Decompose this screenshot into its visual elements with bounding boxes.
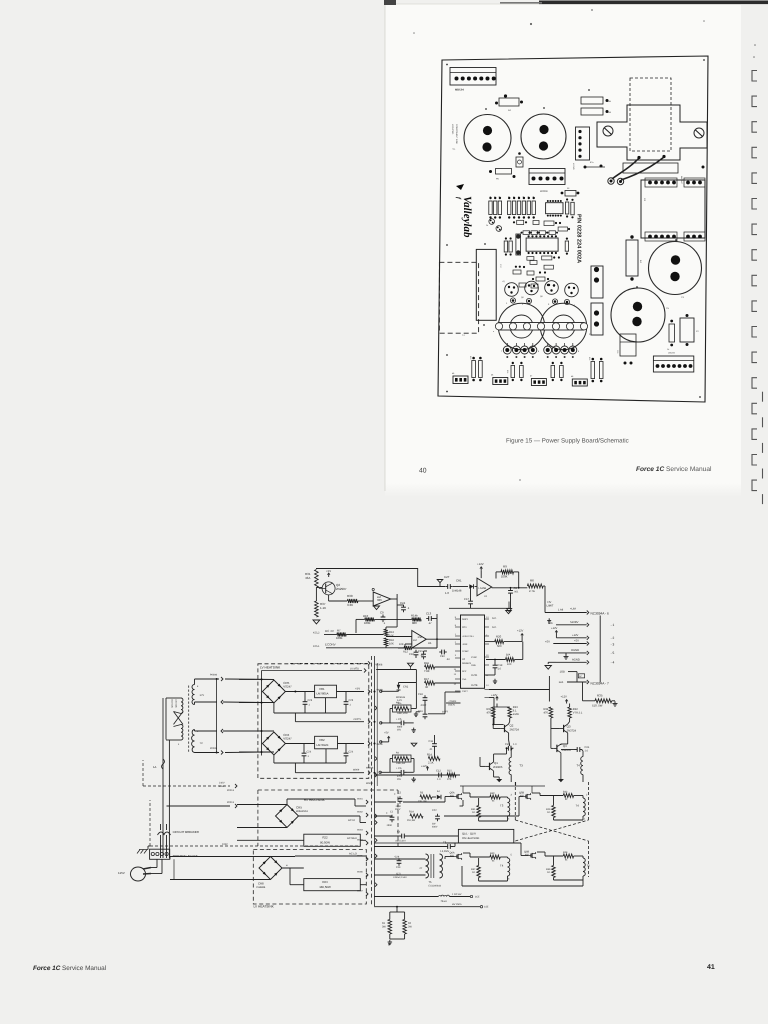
svg-text:W008: W008 — [377, 689, 384, 692]
capacitor C22 2W 400V — [437, 814, 439, 817]
MOSFET Q5A — [456, 795, 458, 799]
wire sec2 top — [194, 730, 196, 732]
ground AGND triangle — [545, 666, 551, 670]
chevron W006 top — [368, 661, 370, 665]
svg-text:Figure 15 — Power Supply Board: Figure 15 — Power Supply Board/Schematic — [506, 438, 629, 445]
transistor Q2 can — [525, 281, 539, 295]
svg-text:CR5: CR5 — [296, 806, 302, 810]
svg-text:R12: R12 — [403, 651, 408, 654]
svg-text:25V: 25V — [397, 778, 402, 781]
svg-text:80,50W: 80,50W — [320, 841, 330, 845]
svg-text:1A: 1A — [153, 765, 157, 769]
diode D1 small circle — [489, 219, 495, 225]
wire mid horizontal — [449, 607, 511, 609]
small parts row 2 — [523, 231, 530, 235]
transformer T5 body — [597, 105, 707, 160]
svg-text:1/2W: 1/2W — [513, 713, 520, 716]
ground right of C5 — [413, 728, 415, 730]
svg-text:HV 250A: HV 250A — [452, 903, 462, 906]
supply +12V at U1B — [480, 567, 482, 571]
svg-text:3W: 3W — [382, 926, 386, 929]
transformer T4 output coil — [583, 798, 585, 816]
supply +12V small — [427, 767, 429, 771]
wire bottom bus cells — [461, 866, 463, 886]
wire R24 right — [360, 884, 366, 886]
resistor right of U3 — [565, 241, 568, 251]
wire R22 right — [360, 839, 366, 841]
svg-text:ROT: ROT — [462, 670, 467, 673]
binder marks column — [752, 44, 763, 504]
resistor R37 1.1K — [315, 601, 319, 617]
svg-text:+5 RTL: +5 RTL — [353, 718, 362, 721]
svg-text:100K: 100K — [336, 636, 343, 640]
svg-text:+12V: +12V — [551, 627, 558, 630]
wire C12 R15 row — [375, 774, 461, 776]
svg-text:R17: R17 — [424, 678, 429, 681]
wires into CR4 — [239, 730, 274, 732]
power stage group — [357, 782, 590, 948]
capacitor C15 small — [516, 157, 523, 167]
svg-text:1200uF,2.5KV: 1200uF,2.5KV — [393, 876, 407, 879]
svg-text:100K: 100K — [501, 575, 508, 579]
svg-text:T4: T4 — [577, 764, 581, 768]
svg-text:Valleylab: Valleylab — [461, 196, 473, 238]
resistor pair left of U3 — [504, 241, 507, 252]
svg-text:R9: R9 — [503, 565, 507, 569]
svg-text:+5V: +5V — [384, 732, 389, 735]
inductor output — [438, 895, 449, 896]
transistor Q3 2N3724 — [563, 725, 565, 732]
vertical tie line — [415, 670, 417, 709]
wire Q2b emitter down — [508, 733, 510, 740]
wires cell2 — [532, 792, 540, 794]
pads above toroids — [510, 298, 515, 303]
svg-text:12A: 12A — [559, 681, 564, 684]
wire Q2b base from R21 — [492, 718, 494, 729]
svg-text:LA35B: LA35B — [479, 587, 487, 590]
bridge CR5 VS247 — [262, 680, 285, 703]
wire CR4 + out — [285, 743, 314, 745]
capacitor C5 big circle — [611, 288, 665, 342]
transformer T5 right coil — [440, 854, 443, 878]
connector J7 (3-pin) — [531, 379, 546, 386]
capacitor C9 — [382, 615, 384, 618]
svg-text:C29: C29 — [396, 866, 401, 869]
resistor R37b 1K — [477, 866, 481, 878]
wire CSFT — [428, 713, 445, 715]
resistor R30 3.3K — [347, 599, 358, 603]
svg-text:SYNC: SYNC — [471, 656, 477, 659]
transistor Q1 can — [505, 283, 519, 297]
resistor farm row — [489, 201, 492, 215]
svg-text:R26: R26 — [588, 357, 591, 360]
connector J8 (3-pin) — [572, 379, 587, 386]
svg-text:W009: W009 — [353, 769, 360, 772]
svg-text:47K: 47K — [447, 778, 452, 781]
wire R7 to opamp — [346, 634, 384, 636]
svg-text:R1A: R1A — [409, 811, 414, 814]
chevron column bottom labels — [366, 800, 368, 804]
svg-text:AC LO: AC LO — [349, 853, 357, 856]
toroid transformer T4 — [540, 303, 586, 349]
svg-text:Q3: Q3 — [567, 725, 571, 729]
wire 115V dashed — [150, 845, 360, 847]
wire +5 RTN — [294, 713, 296, 722]
svg-text:10K: 10K — [399, 643, 404, 646]
svg-text:2.7A: 2.7A — [529, 589, 535, 593]
svg-text:DC 4V: DC 4V — [325, 629, 334, 633]
transformer T1 primary lower coil — [181, 725, 183, 741]
capacitor C28 C29 — [398, 858, 400, 861]
transistor Q2b 2N3724 — [504, 725, 506, 732]
zener CR2 MC6185 — [381, 690, 395, 692]
connector LED board — [653, 356, 693, 372]
svg-text:7.8K: 7.8K — [424, 670, 430, 673]
svg-text:- 5: - 5 — [611, 651, 615, 655]
svg-text:1K: 1K — [472, 811, 475, 814]
transformer T3 output coil — [508, 798, 510, 816]
svg-text:.75mH: .75mH — [440, 900, 447, 903]
svg-text:650: 650 — [450, 795, 455, 798]
regulator VR2 LM7812K — [315, 736, 338, 749]
svg-text:115V(208): 115V(208) — [175, 699, 178, 708]
svg-text:1CE: 1CE — [475, 896, 480, 899]
svg-text:2N2905: 2N2905 — [493, 766, 503, 769]
wire HV 250A — [374, 906, 480, 908]
svg-text:7V: 7V — [200, 742, 203, 745]
resistor R4 100K box — [393, 755, 412, 762]
svg-text:1.0: 1.0 — [585, 750, 589, 753]
svg-text:+: + — [394, 792, 396, 796]
wires T5 — [368, 858, 426, 860]
middle parts group — [366, 663, 417, 785]
capacitor C4 .0015 1KV — [399, 835, 402, 837]
svg-text:1.0: 1.0 — [437, 778, 441, 781]
DIP IC U2 small — [546, 203, 563, 214]
capacitor C6 4700 25V — [380, 771, 399, 773]
resistor R28 61 — [563, 854, 574, 858]
wire cells top rail — [462, 786, 464, 793]
capacitor C8 .001 — [510, 588, 512, 591]
svg-text:R06: R06 — [506, 370, 509, 373]
resistor R1A 21K 5W — [410, 814, 423, 818]
resistor R24b 470 — [549, 707, 553, 718]
svg-text:R14: R14 — [427, 754, 432, 757]
resistor R35 510 .5W — [595, 699, 612, 703]
svg-text:LOCATED: LOCATED — [451, 124, 454, 135]
svg-text:D1: D1 — [486, 224, 488, 227]
wire OUTA — [489, 689, 549, 691]
wire OUTA down to Q3 base — [548, 690, 550, 702]
svg-text:NC3034A - 6: NC3034A - 6 — [591, 612, 609, 616]
ground after R35 — [612, 700, 615, 702]
diode CR1 1N4148 — [453, 586, 468, 588]
ground below C19 — [494, 679, 496, 681]
dashed box LV HEATSINK C — [253, 850, 366, 905]
connector J6 (3-pin) — [493, 378, 508, 385]
svg-text:17V: 17V — [200, 694, 205, 697]
svg-text:OSEN: OSEN — [448, 704, 455, 707]
svg-text:.01: .01 — [429, 748, 433, 751]
svg-text:N.C.: N.C. — [492, 617, 497, 620]
resistor R14b 880 — [412, 617, 421, 621]
wire CR8 upper right — [271, 856, 296, 858]
T1 secondary 7V coil — [192, 730, 195, 753]
svg-text:P0013: P0013 — [227, 801, 235, 804]
resistor R22 80,50W box — [304, 834, 361, 846]
svg-text:4800: 4800 — [397, 726, 403, 729]
svg-text:W033: W033 — [357, 829, 363, 832]
svg-text:LV HEATSINK: LV HEATSINK — [254, 905, 275, 909]
transistor Q1b 2N2905 — [489, 763, 491, 770]
svg-text:AC HI: AC HI — [348, 819, 355, 822]
wire T1 primary feeds — [162, 698, 164, 858]
box Q1L Q1R ON HEATSINK — [458, 829, 513, 843]
T1 core dashed line — [188, 686, 190, 754]
transistor Q4 can — [565, 283, 579, 297]
svg-text:C17: C17 — [464, 598, 469, 601]
capacitor C5 4800 25V — [381, 722, 400, 724]
svg-text:C12: C12 — [436, 770, 441, 773]
wire CR8 out — [282, 867, 304, 869]
svg-text:T3: T3 — [500, 804, 504, 808]
T1 primary loop wires — [166, 697, 181, 699]
resistor R20 500 — [495, 640, 504, 644]
svg-text:GND: GND — [471, 664, 476, 667]
diode D8 rect — [581, 108, 603, 115]
wire U1B out to R6 — [492, 587, 528, 589]
svg-text:COMPONENT SIDE: COMPONENT SIDE — [455, 124, 458, 144]
svg-text:Q1/L - Q1/R: Q1/L - Q1/R — [462, 833, 476, 836]
resistor R5 1800 1/2W box — [393, 705, 412, 712]
tall rect C17 — [476, 249, 496, 320]
wire Q3 base continues down to Q4 — [550, 729, 552, 749]
svg-text:C20: C20 — [505, 743, 510, 746]
svg-text:OUTA: OUTA — [471, 674, 478, 677]
svg-text:21K,5W: 21K,5W — [407, 819, 416, 822]
svg-text:LM7812K: LM7812K — [317, 743, 329, 747]
ferrite bar through toroids — [499, 323, 584, 331]
svg-text:CIRCUIT BREAKER: CIRCUIT BREAKER — [173, 830, 199, 834]
capacitor C15b — [423, 652, 425, 655]
page specks — [530, 23, 532, 25]
svg-text:1K: 1K — [472, 871, 475, 874]
wires into CR8 — [170, 856, 271, 858]
supply +5V at Q2 — [328, 573, 330, 577]
wire CR5 + out — [285, 691, 314, 693]
svg-text:- 1: - 1 — [611, 623, 615, 627]
wire Q2 to R30 — [329, 600, 347, 602]
wire T4 bottom to dashed — [582, 775, 584, 782]
MOSFET Q6A — [456, 855, 458, 859]
svg-text:12S: 12S — [548, 622, 553, 625]
wire fb to output — [433, 618, 437, 620]
svg-text:1800,1/2W: 1800,1/2W — [397, 712, 409, 715]
capacitor C1 1500 200V — [391, 815, 393, 818]
resistor R9 100K feedback — [501, 570, 514, 574]
U2 pin stubs left — [455, 618, 461, 620]
svg-text:ON HEATSINK: ON HEATSINK — [462, 837, 480, 840]
svg-text:W&A3504: W&A3504 — [296, 810, 308, 813]
small parts row 1 — [517, 220, 524, 224]
component C2 rect right — [680, 318, 694, 342]
svg-text:VS247: VS247 — [283, 737, 292, 741]
svg-text:VR1: VR1 — [319, 687, 325, 691]
dashed box LV HEATSINK A — [258, 664, 369, 779]
wire CR5b top out — [286, 799, 288, 805]
transistor Q2 2N2907 — [322, 582, 335, 595]
relay K1 pin row top — [645, 178, 677, 187]
capacitor C24 — [403, 605, 405, 608]
capacitor C40 — [439, 651, 442, 653]
wires cell4 — [537, 851, 545, 853]
svg-text:.1500: .1500 — [395, 805, 401, 808]
svg-text:.33: .33 — [446, 658, 450, 661]
sync arrow above U2 — [508, 602, 510, 609]
resistor R21 470 — [491, 707, 495, 718]
resistor R3C 61 — [490, 795, 500, 799]
resistor P6 — [496, 169, 512, 175]
capacitor C25 .1 — [345, 699, 347, 702]
wire Q2 emitter down — [328, 595, 330, 601]
svg-text:1 A8: 1 A8 — [558, 609, 564, 612]
svg-text:+5V: +5V — [545, 640, 550, 643]
U2 pin stubs right — [485, 618, 490, 620]
svg-text:C27: C27 — [444, 575, 450, 579]
svg-text:-C28: -C28 — [394, 856, 400, 859]
svg-text:T4: T4 — [500, 864, 504, 868]
dashed region C17 — [439, 262, 478, 333]
trimmer S4 — [499, 98, 519, 106]
svg-text:200V: 200V — [395, 808, 401, 811]
resistor pair left — [472, 361, 476, 378]
resistor cluster mid-left — [511, 366, 515, 378]
wires into CR5 — [239, 678, 274, 680]
wire Q3 base from R24 (OUTA) — [550, 718, 552, 729]
ground triangle top — [408, 663, 414, 667]
wire breaker continues — [160, 835, 162, 858]
resistor R10 100K — [365, 617, 375, 621]
ground small below — [548, 618, 550, 620]
svg-text:W036: W036 — [357, 871, 363, 874]
svg-text:C4: C4 — [667, 348, 669, 351]
AC plug — [131, 867, 146, 881]
svg-text:+5V: +5V — [326, 569, 331, 573]
svg-text:115V: 115V — [222, 843, 228, 846]
PCB mounting holes — [446, 64, 448, 66]
svg-text:.47: .47 — [428, 622, 432, 625]
AC bus vertical in box A — [261, 671, 263, 756]
svg-text:R20: R20 — [469, 356, 472, 359]
wire fb rail — [356, 618, 365, 620]
svg-text:- 2: - 2 — [611, 636, 615, 640]
T5 core lines — [430, 854, 432, 878]
ground right of C6 — [413, 777, 415, 779]
wires R1 R2 — [389, 912, 391, 919]
ground below C8 — [506, 611, 512, 614]
svg-text:R22: R22 — [322, 836, 328, 840]
wire OGND pin — [558, 652, 587, 654]
svg-text:Q2: Q2 — [510, 724, 514, 728]
capacitor T1 big circle — [464, 115, 511, 162]
connector J2 (5-pin vertical) — [576, 127, 590, 160]
resistor R3 22K .5W — [420, 795, 432, 799]
svg-text:VS247: VS247 — [283, 685, 292, 689]
wire Q3 emitter to Q4 collector node — [567, 733, 569, 744]
svg-text:W035: W035 — [357, 855, 363, 858]
wire sec1 bottom — [194, 702, 196, 705]
svg-text:S10RV: S10RV — [570, 621, 579, 624]
capacitor C18 .0022 — [424, 695, 426, 698]
transformer T4 driver coil — [581, 757, 583, 775]
transistor Q4 2N2905 — [556, 745, 558, 752]
svg-text:R3C: R3C — [490, 792, 495, 795]
resistor R33 61 — [563, 794, 574, 798]
wires cell1 — [463, 792, 470, 794]
resistor R24 180,50W box — [304, 879, 361, 891]
capacitor C20 1.0 — [506, 747, 509, 749]
connector J1 (8-pin) — [450, 68, 496, 86]
svg-text:100K,EW: 100K,EW — [396, 762, 406, 765]
svg-text:CR2: CR2 — [403, 686, 409, 689]
wire +12V pin — [555, 635, 557, 638]
transformer T5 left coil — [426, 854, 429, 878]
svg-text:1.1K: 1.1K — [320, 606, 326, 610]
junction at C17 — [470, 586, 472, 588]
capacitor T2 big circle — [521, 114, 566, 159]
svg-text:LM: LM — [413, 639, 417, 642]
extra bus chevrons — [375, 706, 377, 710]
svg-text:R24: R24 — [322, 880, 328, 884]
svg-text:1K: 1K — [547, 811, 550, 814]
svg-text:Service Manual: Service Manual — [666, 466, 712, 473]
svg-text:10K: 10K — [389, 643, 394, 646]
diode D4 — [432, 796, 436, 798]
svg-text:LM7805A: LM7805A — [317, 692, 329, 696]
bottom rail bridge B — [273, 755, 275, 763]
svg-text:650: 650 — [525, 854, 530, 857]
svg-text:NC3034A - 7: NC3034A - 7 — [591, 681, 609, 685]
supply +12V at R22 — [566, 700, 568, 704]
svg-text:230V(208): 230V(208) — [171, 699, 174, 708]
svg-text:m: m — [286, 864, 288, 867]
capacitor C12 / resistor R15 — [436, 774, 439, 776]
resistor R13 — [384, 629, 388, 637]
relay K1 block — [641, 180, 705, 238]
T1 crossing wires — [174, 712, 184, 725]
wire bus top to tie line — [376, 669, 416, 671]
fuse clip F2 — [591, 303, 603, 335]
capacitor C2 1500 200V — [399, 796, 401, 799]
svg-text:358: 358 — [418, 636, 423, 639]
svg-text:180,50W: 180,50W — [319, 885, 331, 889]
gate wire Q5A — [403, 801, 445, 803]
svg-text:T4: T4 — [576, 804, 580, 808]
svg-text:1N4148: 1N4148 — [452, 590, 462, 593]
svg-text:Force 1C: Force 1C — [33, 965, 61, 972]
svg-text:336: 336 — [377, 598, 382, 602]
svg-text:1.0: 1.0 — [445, 591, 449, 595]
op-amp U1B LM358 — [477, 578, 492, 596]
T5 wire posts — [608, 178, 614, 184]
svg-text:500: 500 — [497, 645, 502, 648]
svg-text:36: 36 — [425, 686, 428, 689]
svg-text:2N3724: 2N3724 — [510, 729, 520, 732]
wire VR2 out +12V — [338, 743, 365, 745]
wire sec2 bottom — [195, 752, 220, 754]
svg-text:R20: R20 — [496, 635, 502, 639]
T1 secondary 17V coil — [192, 685, 195, 705]
